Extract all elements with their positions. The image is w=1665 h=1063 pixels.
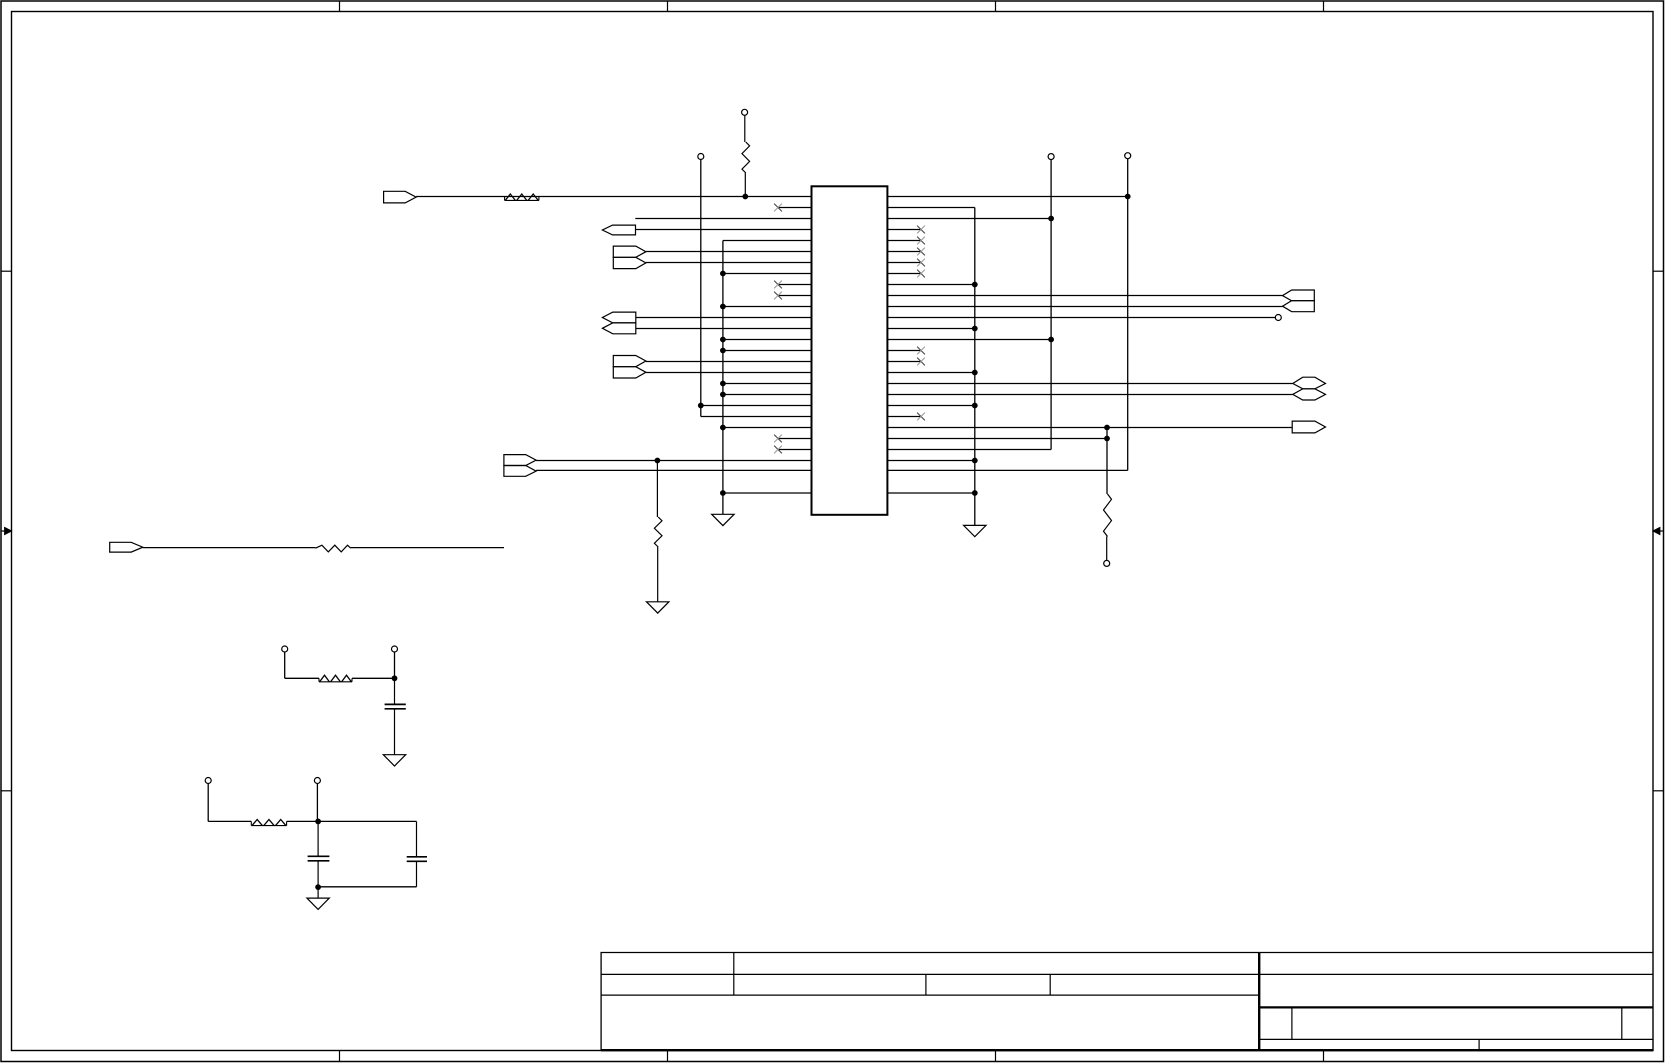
- RC1 wire resistor to node: [352, 677, 395, 679]
- wire IC pin row 8 left: [723, 273, 812, 275]
- wire IC pin row 7 right: [887, 262, 921, 264]
- junction dot row1 at bus x1127: [1125, 194, 1131, 200]
- ground symbol GND2: [964, 525, 986, 536]
- title block bottom edge: [601, 1049, 1653, 1051]
- no-connect X right row 5: [917, 237, 925, 245]
- connector A (left-pointing): [602, 225, 635, 235]
- no-connect X right row 21: [917, 413, 925, 421]
- wire IC pin row 16 left: [646, 361, 812, 363]
- title block left table outline: [601, 953, 1259, 1051]
- top border zone tick 4: [1323, 1, 1325, 12]
- junction dot bus x975 row 20: [972, 403, 978, 409]
- wire IC pin row 24 left: [778, 449, 812, 451]
- resistor R1 bottom lead: [744, 173, 746, 197]
- title block right section left edge: [1258, 953, 1260, 1051]
- wire IC pin row 6 right: [887, 251, 921, 253]
- junction dot bus x1051 row 3: [1048, 216, 1054, 222]
- wire IC pin row 15 left: [723, 350, 812, 352]
- connector B arrow 2: [613, 257, 646, 268]
- capacitor C2: [308, 855, 330, 857]
- title block right section bottom cell divider: [1478, 1039, 1480, 1050]
- wire IC pin row 12 left: [636, 317, 812, 319]
- junction dot row25 to R3: [655, 458, 661, 464]
- junction dot bus x975 row 9: [972, 282, 978, 288]
- wire IC pin row 14 left: [723, 339, 812, 341]
- ground symbol GND3: [647, 602, 669, 613]
- junction dot bus x723 row 15: [720, 348, 726, 354]
- junction dot node RC2 bottom: [315, 884, 321, 890]
- junction dot bus x723 row 18: [720, 381, 726, 387]
- title block right section cell divider 2: [1621, 1007, 1623, 1039]
- top border zone tick 1: [339, 1, 341, 12]
- wire IC pin row 7 left: [646, 262, 812, 264]
- IC U1: [812, 186, 888, 515]
- resistor R6: [250, 821, 252, 825]
- wire IC pin row 15 right: [887, 350, 921, 352]
- title block left table row line 2: [601, 994, 1259, 996]
- capacitor C1 top lead: [394, 678, 396, 704]
- no-connect X left row 10: [774, 292, 782, 300]
- output port P2: [110, 542, 143, 552]
- no-connect terminal circle bus x1051: [1048, 154, 1054, 160]
- resistor R1 top lead: [744, 115, 746, 142]
- connector G hexagon 1: [1293, 377, 1326, 389]
- title block right section row line 1: [1259, 973, 1653, 975]
- wire IC pin row 5 left: [723, 240, 812, 242]
- junction dot bus x723 row 14: [720, 337, 726, 343]
- connector G hexagon 2: [1293, 389, 1326, 400]
- title block right section top edge: [1259, 952, 1653, 954]
- RC1 top terminal circle: [392, 646, 398, 652]
- capacitor C3: [407, 856, 427, 858]
- wire IC pin row 23 left: [778, 438, 812, 440]
- wire IC pin row 20 right: [887, 405, 974, 407]
- capacitor C2 bottom lead: [317, 861, 319, 887]
- junction dot bus x975 row 25: [972, 458, 978, 464]
- title block right section row line 3: [1259, 1038, 1653, 1040]
- wire IC pin row 13 right: [887, 328, 974, 330]
- junction dot bus x700 row 20: [698, 403, 704, 409]
- wire IC pin row 4 right: [887, 229, 921, 231]
- title block left table row line 1: [601, 973, 1259, 975]
- no-connect terminal circle bus x700: [698, 154, 704, 160]
- resistor R4 bottom lead: [1106, 537, 1108, 561]
- connector F arrow 2: [1283, 301, 1315, 312]
- bottom border zone tick 3: [995, 1051, 997, 1062]
- wire IC pin row 14 right: [887, 339, 1051, 341]
- wire IC pin row 23 right: [887, 438, 1107, 440]
- junction dot row23 to R4 bus: [1104, 436, 1110, 442]
- wire IC pin row 12 right: [887, 317, 1275, 319]
- wire IC pin row 17 left: [646, 372, 812, 374]
- junction dot node RC2 top: [315, 819, 321, 825]
- RC1 input drop wire: [284, 652, 286, 678]
- junction dot bus x723 row 22: [720, 425, 726, 431]
- right border center arrow: [1659, 530, 1664, 532]
- connector E arrow 2: [504, 466, 536, 477]
- wire IC pin row 3 left: [635, 218, 811, 220]
- title block left table column line 1: [733, 953, 735, 996]
- no-connect terminal circle bus x1127: [1125, 153, 1131, 159]
- no-connect X left row 23: [774, 435, 782, 443]
- left border zone tick 2: [1, 790, 12, 792]
- RC2 input drop wire: [207, 784, 209, 822]
- wire IC pin row 17 right: [887, 372, 974, 374]
- wire IC pin row 28 right: [887, 492, 974, 494]
- RC1 top drop wire: [394, 652, 396, 678]
- left border center arrow: [1, 530, 6, 532]
- wire IC pin row 21 right: [887, 416, 921, 418]
- wire IC pin row 9 right: [887, 284, 974, 286]
- wire IC pin row 2 right: [887, 207, 974, 209]
- wire resistor R7 to open end: [351, 547, 504, 549]
- wire IC pin row 4 left: [636, 229, 812, 231]
- title block left table column line 2: [925, 974, 927, 995]
- wire IC pin row 28 left: [723, 492, 812, 494]
- net bus vertical at x700: [700, 160, 702, 417]
- wire IC pin row 9 left: [778, 284, 812, 286]
- wire IC pin row 10 right: [887, 295, 1282, 297]
- capacitor C3 bottom lead: [416, 861, 418, 887]
- wire IC pin row 24 right: [887, 449, 1051, 451]
- capacitor C3 top lead: [416, 821, 418, 856]
- resistor R4 terminal circle: [1104, 560, 1110, 566]
- RC2 wire node to right branch: [318, 820, 416, 822]
- top border zone tick 3: [995, 1, 997, 12]
- junction dot bus x723 row 28: [720, 490, 726, 496]
- wire IC pin row 25 right: [887, 460, 974, 462]
- output port H: [1292, 421, 1325, 433]
- capacitor C1 bottom lead: [394, 709, 396, 755]
- junction dot bus x975 row 28: [972, 490, 978, 496]
- junction dot node RC1: [392, 675, 398, 681]
- junction dot row22 to R4 bus: [1104, 425, 1110, 431]
- wire IC pin row 5 right: [887, 240, 921, 242]
- resistor R5: [318, 678, 320, 682]
- wire IC pin row 16 right: [887, 361, 921, 363]
- wire IC pin row 21 left: [701, 416, 812, 418]
- connector C arrow 1: [602, 312, 635, 323]
- no-connect X right row 4: [917, 226, 925, 234]
- no-connect X left row 24: [774, 446, 782, 454]
- junction dot bus x723 row 19: [720, 392, 726, 398]
- junction dot bus x1051 row 14: [1048, 337, 1054, 343]
- pull-up resistor R1 terminal circle: [742, 109, 748, 115]
- RC2 input terminal circle: [205, 778, 211, 784]
- RC2 wire resistor to node: [287, 820, 319, 822]
- junction dot R1 to row1 wire: [742, 194, 748, 200]
- series resistor R2: [504, 197, 506, 201]
- no-connect X left row 2: [774, 204, 782, 212]
- net bus vertical at x723: [722, 241, 724, 515]
- no-connect X right row 6: [917, 248, 925, 256]
- right border zone tick 1: [1653, 270, 1664, 272]
- right border zone tick 2: [1653, 790, 1664, 792]
- connector B arrow 1: [613, 246, 646, 257]
- wire IC pin row 2 left: [778, 207, 812, 209]
- bottom border zone tick 1: [339, 1051, 341, 1062]
- RC2 bottom return wire: [318, 886, 416, 888]
- junction dot bus x723 row 8: [720, 271, 726, 277]
- RC2 ground lead: [317, 887, 319, 898]
- net bus vertical at x1127: [1127, 159, 1129, 471]
- ground symbol GND1: [712, 514, 734, 525]
- wire IC pin row 11 right: [887, 306, 1282, 308]
- input port P1: [384, 191, 417, 203]
- wire IC pin row 18 right: [887, 383, 1292, 385]
- wire IC pin row 11 left: [723, 306, 812, 308]
- resistor R4: [1104, 494, 1112, 537]
- net bus vertical at x975: [974, 208, 976, 526]
- connector E arrow 1: [504, 455, 536, 466]
- connector D arrow 2: [613, 367, 646, 378]
- wire IC pin row 1 right: [887, 196, 1127, 198]
- no-connect X left row 9: [774, 281, 782, 289]
- connector C arrow 2: [602, 323, 635, 334]
- RC2 top terminal circle: [314, 778, 320, 784]
- RC2 wire to resistor: [208, 820, 251, 822]
- resistor R3: [654, 517, 662, 547]
- no-connect X right row 15: [917, 347, 925, 355]
- wire IC pin row 1 left: [416, 196, 811, 198]
- title block right section cell divider 1: [1291, 1007, 1293, 1039]
- junction dot bus x975 row 13: [972, 326, 978, 332]
- wire IC pin row 22 right: [887, 427, 1292, 429]
- junction dot bus x975 row 17: [972, 370, 978, 376]
- ground symbol GND4: [383, 755, 405, 766]
- bottom border zone tick 4: [1323, 1051, 1325, 1062]
- wire IC pin row 3 right: [887, 218, 1051, 220]
- top border zone tick 2: [667, 1, 669, 12]
- connector D arrow 1: [613, 356, 646, 367]
- RC1 wire to resistor: [285, 677, 319, 679]
- wire IC pin row 19 left: [723, 394, 812, 396]
- wire IC pin row 26 right: [887, 469, 1127, 471]
- no-connect X right row 7: [917, 259, 925, 267]
- RC2 top drop wire: [316, 784, 318, 822]
- resistor R7: [316, 545, 351, 552]
- wire IC pin row 26 left: [536, 469, 811, 471]
- ground symbol GND5: [307, 898, 329, 909]
- wire IC pin row 22 left: [723, 427, 812, 429]
- RC1 input terminal circle: [282, 646, 288, 652]
- wire IC pin row 19 right: [887, 394, 1292, 396]
- wire IC pin row 18 left: [723, 383, 812, 385]
- net bus vertical at x1107: [1106, 428, 1108, 495]
- resistor R1: [742, 142, 750, 173]
- title block left table column line 3: [1049, 974, 1051, 995]
- wire IC pin row 6 left: [646, 251, 812, 253]
- net bus vertical at x1051: [1050, 160, 1052, 450]
- capacitor C1: [385, 703, 406, 705]
- wire IC pin row 8 right: [887, 273, 921, 275]
- wire IC pin row 13 left: [636, 328, 812, 330]
- left border zone tick 1: [1, 270, 12, 272]
- resistor R3 top lead: [656, 461, 658, 518]
- no-connect X right row 8: [917, 270, 925, 278]
- bottom border zone tick 2: [667, 1051, 669, 1062]
- no-connect X right row 16: [917, 358, 925, 366]
- capacitor C2 top lead: [317, 821, 319, 856]
- wire P2 to resistor R7: [143, 547, 316, 549]
- connector F arrow 1: [1283, 290, 1315, 301]
- wire IC pin row 10 left: [778, 295, 812, 297]
- no-connect terminal circle row 12: [1275, 315, 1281, 321]
- wire IC pin row 20 left: [701, 405, 812, 407]
- junction dot bus x723 row 11: [720, 304, 726, 310]
- title block right section row line 2: [1259, 1006, 1653, 1008]
- wire IC pin row 25 left: [536, 460, 811, 462]
- resistor R3 bottom lead: [657, 547, 659, 602]
